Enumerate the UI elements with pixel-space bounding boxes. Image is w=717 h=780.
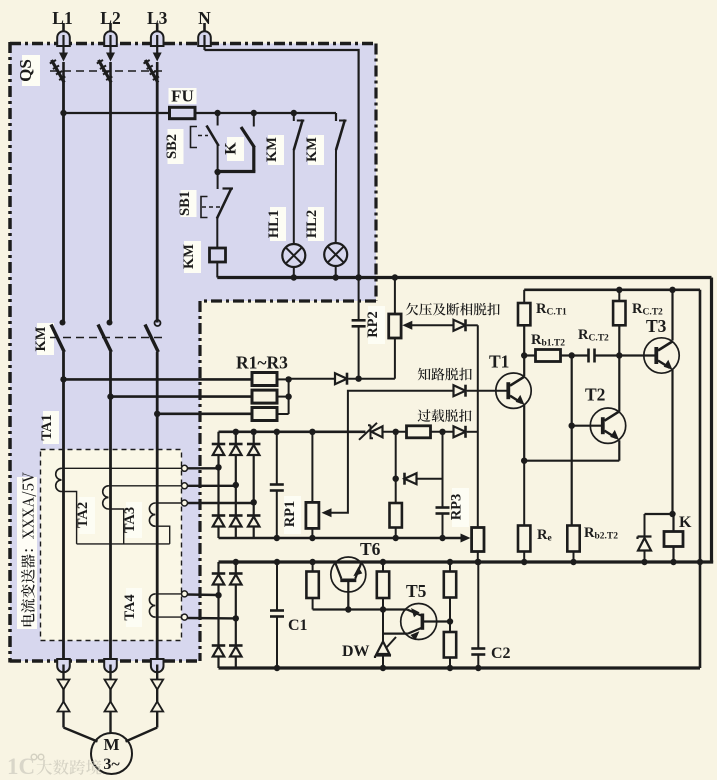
node capf top (274, 429, 280, 435)
wire relay diode link (645, 513, 673, 515)
diode bridge bottom (229, 516, 243, 527)
svg-text:KM: KM (304, 137, 320, 162)
svg-text:T5: T5 (406, 581, 427, 601)
wire Rb2 column (571, 356, 573, 526)
resistor ps r3a (444, 562, 456, 632)
contactor KM linkage dashed (50, 337, 163, 339)
contact K (self-lock) (218, 113, 256, 172)
node ps in2 (233, 615, 239, 621)
node UV divider (355, 376, 361, 382)
wire L1 vertical KM to bottom terminal (62, 352, 65, 663)
terminal bushing N (198, 23, 211, 46)
svg-text:K: K (679, 514, 692, 531)
terminal bushing L1 (57, 23, 70, 46)
node RP1 top (309, 429, 315, 435)
capacitor C1 (270, 562, 284, 668)
wire QS bus to FU (64, 112, 170, 114)
wire R1 out (277, 378, 289, 380)
node rail Rc2 (616, 287, 622, 293)
node HL1 bus (291, 274, 297, 280)
terminal bushing L3 (151, 23, 164, 46)
wire T2 emitter drop (618, 440, 620, 460)
resistor Rb2.T2 (567, 526, 579, 563)
node r2 top (380, 559, 386, 565)
terminal bushing bottom L2 (104, 659, 117, 672)
wire L3 QS feed (156, 62, 159, 82)
diode ps top2 (229, 574, 243, 585)
zener DW (375, 634, 396, 669)
wire VD5 to cap column (417, 478, 443, 480)
diode bridge top (247, 444, 261, 455)
wire TA4 lead2 (155, 614, 187, 620)
node T6 base (345, 606, 351, 612)
wire L2 vertical from QS to KM (109, 82, 112, 323)
wire TA2 lead1 (109, 483, 188, 489)
wire right rail vertical (699, 290, 702, 668)
svg-text:KM: KM (33, 326, 49, 351)
node Rb2 bottom (570, 559, 576, 565)
connector L3 (151, 680, 163, 712)
node L3 tap (154, 411, 160, 417)
wire L1 QS feed (62, 62, 65, 82)
cabinet border right upper (374, 44, 377, 302)
wire TA3 to bridge (188, 502, 254, 504)
wire L2 to R2 (111, 395, 253, 398)
node L1-FU junction (60, 110, 66, 116)
contact KM for HL1 (294, 113, 305, 150)
wire N entry (203, 35, 205, 50)
diode VD5 (405, 473, 417, 485)
wire TA4 lead1 (155, 591, 187, 597)
wire L1 vertical from QS to KM (62, 82, 65, 323)
resistor ps r3b (444, 632, 456, 668)
svg-text:SB2: SB2 (164, 134, 180, 159)
wire T3 collector (671, 290, 673, 341)
wire TA2 lead2 (109, 509, 124, 544)
diode ps top1 (212, 574, 226, 585)
wire T1 emitter (523, 405, 525, 461)
svg-text:RP3: RP3 (449, 494, 465, 521)
node L1 tap (60, 376, 66, 382)
wire L2 entry with arrow (106, 35, 115, 62)
wire R3 out (277, 413, 289, 415)
wire overload RC branch (395, 432, 397, 479)
label short-circuit trip (418, 368, 472, 381)
node SB2 branch (214, 110, 220, 116)
node ps in1 (215, 592, 221, 598)
node r3b bottom (447, 665, 453, 671)
wire SB1 to KM coil (216, 217, 218, 248)
svg-text:T2: T2 (585, 385, 605, 405)
wire L1 motor lead (62, 665, 64, 728)
svg-text:TA2: TA2 (75, 502, 91, 528)
diode VD1 (335, 373, 347, 385)
switch QS blade L2 (97, 60, 113, 83)
node Re bottom (521, 559, 527, 565)
wire L1 entry with arrow (59, 35, 68, 62)
wire collector rail (524, 288, 700, 291)
label QS (0, 0, 1, 1)
cabinet border step (200, 299, 376, 302)
transistor T1 (496, 373, 531, 408)
wire trip summing vertical (477, 325, 479, 527)
svg-text:TA3: TA3 (122, 507, 138, 533)
wire lamp HL2 to bus (335, 266, 337, 278)
svg-text:QS: QS (16, 59, 35, 82)
node C2 bottom (475, 665, 481, 671)
switch QS blade L1 (50, 60, 66, 83)
transformer TA3 winding (149, 503, 155, 526)
node diode bottom (641, 559, 647, 565)
node SB2-K junction (214, 169, 220, 175)
node L2 tap (107, 393, 113, 399)
node overload cap join (439, 429, 445, 435)
svg-text:T1: T1 (489, 352, 509, 372)
wire RP1 wiper riser (322, 391, 454, 518)
node RP2 top (392, 274, 398, 280)
contact KM main L3 (145, 320, 161, 352)
resistor below VD5 (390, 479, 402, 538)
wire T5 lower to DW column (383, 632, 408, 634)
pushbutton SB1 (201, 172, 233, 219)
svg-text:K: K (223, 142, 240, 155)
wire L3 vertical from QS to KM (156, 82, 159, 323)
svg-text:HL2: HL2 (304, 210, 320, 238)
wire diode to UV node (349, 378, 395, 380)
svg-text:C2: C2 (491, 645, 511, 662)
resistor Rc.T2 (613, 290, 625, 356)
wire bridge col3 (253, 432, 255, 538)
wire L2 QS feed (109, 62, 112, 82)
wire zener to R (383, 431, 407, 433)
wire bridge top bus (219, 430, 366, 433)
svg-text:DW: DW (342, 643, 370, 660)
wire L3 entry with arrow (153, 35, 162, 62)
diode VD4 (454, 426, 466, 438)
wire N down-right-down (205, 50, 359, 278)
node cap bottom (439, 535, 445, 541)
node HL2 bus (333, 274, 339, 280)
wire to lamp HL1 (293, 149, 295, 244)
node N-bus junction (355, 274, 361, 280)
wire T1 collector (523, 325, 525, 376)
potentiometer RP1 (306, 432, 319, 538)
label undervoltage-phase-loss trip (406, 303, 500, 316)
wire TA1 lead2 (62, 492, 77, 544)
wire L2 motor lead (109, 665, 111, 728)
svg-text:3~: 3~ (103, 756, 120, 773)
node capf bottom (274, 535, 280, 541)
svg-text:KM: KM (181, 244, 197, 269)
wire RP2 wiper (402, 321, 453, 330)
svg-text:L1: L1 (52, 8, 72, 28)
wire TA3 lead2 (155, 526, 170, 544)
svg-text:HL1: HL1 (266, 210, 282, 238)
wire bridge bottom bus (219, 537, 462, 540)
node K branch (251, 110, 257, 116)
node bridge top c2 (233, 429, 239, 435)
switch QS linkage dashed (50, 70, 163, 72)
node RP1 bottom (309, 535, 315, 541)
node overload R left (393, 429, 399, 435)
lamp HL1 (282, 244, 305, 267)
svg-text:R1~R3: R1~R3 (236, 353, 288, 373)
lamp HL2 (324, 243, 347, 266)
wire bottom bus (219, 666, 701, 669)
node bridge top c3 (251, 429, 257, 435)
node C1 bottom (274, 665, 280, 671)
wire L1 to R1 (64, 378, 253, 381)
node T2 base (569, 423, 575, 429)
cabinet border bottom (10, 659, 200, 663)
wire L2 vertical KM to bottom terminal (109, 352, 112, 663)
wire lamp HL1 to bus (293, 267, 295, 278)
resistor R3 (252, 408, 277, 421)
node res bottom (393, 535, 399, 541)
node DW bottom (380, 665, 386, 671)
wire L3 motor lead (156, 665, 158, 728)
label overload trip (418, 409, 472, 422)
wire KM coil to bus (216, 262, 218, 278)
svg-text:T6: T6 (360, 539, 381, 559)
watermark (7, 754, 101, 779)
svg-text:KM: KM (264, 137, 280, 162)
transistor T6 (331, 557, 366, 610)
motor M (91, 733, 132, 774)
diode VD2 (454, 319, 466, 331)
wire R join vertical (288, 379, 290, 414)
diode bridge bottom (212, 516, 226, 527)
wire bridge left column (217, 432, 219, 538)
connector L2 (105, 680, 117, 712)
wire ps bridge col2 (235, 562, 237, 668)
wire Rb1 to node (561, 354, 572, 356)
wire T6 base line (313, 608, 408, 610)
capacitor bridge filter (270, 432, 284, 538)
wire ps bridge col1 (217, 562, 219, 668)
current-transducer cabinet shaded area (10, 44, 376, 662)
wire cap column (436, 432, 450, 538)
resistor R2 (252, 390, 277, 403)
transistor T3 (644, 338, 679, 373)
pushbutton SB2 (191, 113, 219, 148)
wire VD3 to T1 base (467, 390, 508, 392)
coil KM (210, 248, 226, 262)
svg-text:SB1: SB1 (177, 191, 193, 216)
fuse FU (170, 107, 218, 118)
diode VD3 (454, 385, 466, 397)
node ps c2 top (233, 559, 239, 565)
node RC mid (393, 476, 399, 482)
wire TA2 to bridge (188, 485, 236, 487)
wire R2 out (277, 396, 289, 398)
node RP3 bus (475, 559, 481, 565)
node T5 base node (447, 618, 453, 624)
wire VD2 to summing (467, 324, 478, 326)
cabinet border top (10, 42, 376, 46)
wire L3 to R3 (157, 412, 252, 415)
diode relay flyback (638, 514, 652, 562)
TA transformer dashed box fill (41, 450, 182, 641)
wire motor leads (64, 728, 158, 742)
svg-text:RP2: RP2 (365, 311, 381, 338)
svg-text:M: M (103, 735, 119, 754)
node r1 top (309, 559, 315, 565)
transistor T2 (590, 408, 625, 443)
wire L3 vertical KM to bottom terminal (156, 352, 159, 663)
cabinet border right lower (198, 301, 201, 661)
svg-text:TA4: TA4 (122, 594, 138, 620)
terminal bushing L2 (104, 23, 117, 46)
svg-text:TA1: TA1 (39, 414, 55, 440)
label transducer rating (0, 0, 1, 1)
resistor ps filter1 (306, 562, 318, 610)
potentiometer RP2 (389, 278, 401, 379)
node R2 join (285, 393, 291, 399)
wire T2 base (572, 425, 603, 427)
node r3 top (447, 559, 453, 565)
node rail corner bus2 (697, 559, 703, 565)
contact KM main L2 (98, 320, 113, 353)
node bridge in2 (233, 482, 239, 488)
diode bridge top (212, 444, 226, 455)
wire R to VD4 (431, 431, 454, 433)
wire TA1 lead1 (62, 465, 188, 471)
node bridge in3 (251, 499, 257, 505)
contact KM for HL2 (336, 120, 347, 151)
wire to Rb1 (524, 354, 535, 356)
svg-text:C1: C1 (288, 617, 308, 634)
diode ps bot1 (212, 646, 226, 657)
resistor ps filter2 (377, 562, 389, 634)
node coupling (569, 352, 575, 358)
wire TA4 to bridge1 (188, 593, 219, 596)
wire control top line (218, 112, 336, 114)
wire emitter common (524, 460, 619, 462)
wire to T3 base (619, 354, 656, 356)
transistor T5 (401, 604, 450, 641)
resistor Re (518, 461, 530, 562)
node T1 emitter join (521, 458, 527, 464)
transformer TA4 winding (149, 594, 155, 617)
wire mid bus (219, 560, 714, 563)
relay K coil (664, 514, 683, 562)
node bridge in1 (215, 464, 221, 470)
transformer TA2 winding (103, 486, 109, 509)
switch QS blade L3 (144, 60, 160, 83)
node relay bottom (670, 559, 676, 565)
resistor Rc.T1 (518, 290, 530, 326)
node r2 base join (380, 606, 386, 612)
wire R join to diode (289, 378, 335, 380)
capacitor at N column (352, 278, 366, 379)
contact KM main L1 (51, 320, 66, 353)
wire bridge col2 (235, 432, 237, 538)
diode ps bot2 (229, 646, 243, 657)
capacitor C2 (471, 562, 485, 668)
svg-text:L3: L3 (147, 8, 168, 28)
diode bridge bottom (247, 516, 261, 527)
wire T2 collector (618, 356, 620, 412)
svg-text:N: N (198, 8, 211, 28)
node C1 top (274, 559, 280, 565)
wire TA1 to bridge (188, 467, 219, 469)
wire T3 emitter (671, 370, 673, 515)
node T3 rail (669, 287, 675, 293)
terminal bushing bottom L1 (57, 659, 70, 672)
node Rb1 left (521, 352, 527, 358)
resistor overload filter (407, 426, 431, 438)
node KM-HL1 branch (291, 110, 297, 116)
TA dashed box (41, 450, 182, 641)
wire TA star common (77, 543, 170, 545)
capacitor coupling (572, 349, 620, 363)
connector L1 (58, 680, 70, 712)
zener stabilizer (359, 423, 383, 440)
node N join (355, 274, 361, 280)
box right border (710, 278, 713, 563)
diode bridge top (229, 444, 243, 455)
potentiometer RP3 (472, 528, 484, 563)
cabinet border left (8, 42, 12, 663)
wire TA4 to bridge2 (188, 617, 236, 620)
resistor R1 (252, 373, 277, 386)
svg-text:T3: T3 (646, 316, 667, 336)
svg-text:FU: FU (171, 87, 194, 106)
node Rc2 bottom (616, 352, 622, 358)
wire to lamp HL2 (335, 149, 337, 243)
wire TA3 lead1 (155, 500, 187, 506)
wire RP3 wiper arrow (461, 534, 471, 543)
svg-text:RP1: RP1 (282, 501, 298, 528)
terminal bushing bottom L3 (151, 659, 164, 672)
transformer TA1 winding (56, 468, 62, 491)
wire corner to KM-HL2 (335, 113, 337, 121)
node C2 top (475, 559, 481, 565)
node R1 join (285, 376, 291, 382)
resistor Rb1.T2 (536, 350, 561, 362)
node relay top (669, 511, 675, 517)
wire VD4 to summing (467, 431, 478, 433)
svg-text:L2: L2 (100, 8, 120, 28)
wire top bus (217, 276, 711, 279)
wire SB2 to node (217, 145, 219, 172)
